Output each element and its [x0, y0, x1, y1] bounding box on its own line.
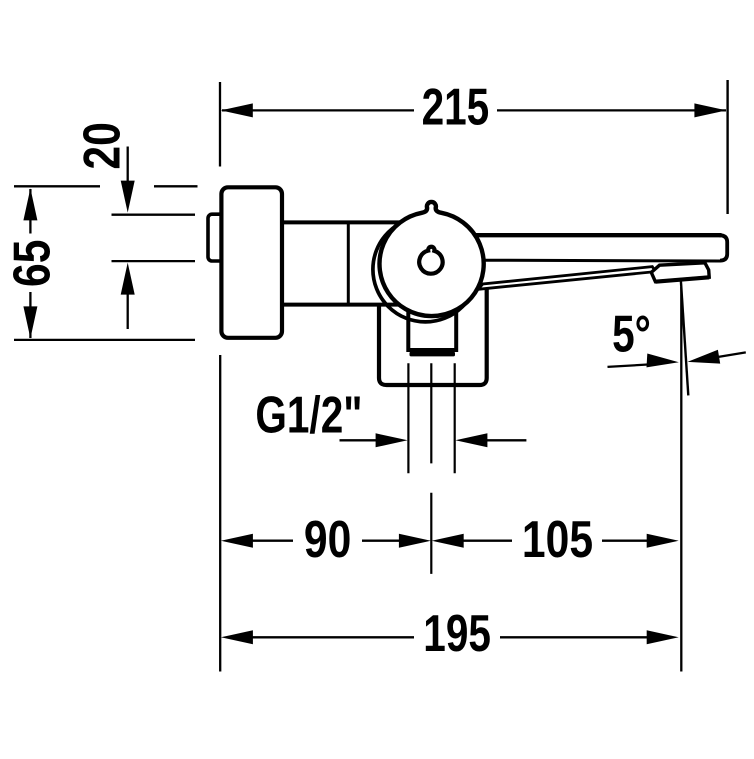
- wall flange: [221, 187, 282, 337]
- outlet aerator bar: [410, 352, 456, 357]
- handle cap circle with knob: [380, 202, 484, 316]
- flange bottom extension line: [14, 339, 195, 341]
- water stream line (5 deg): [681, 281, 688, 395]
- dim 20 up arrow: [127, 292, 129, 329]
- dim 215 extension line right: [726, 80, 728, 214]
- dim 195: [221, 630, 253, 644]
- spout: [470, 235, 727, 261]
- G1/2 extension line left: [407, 363, 409, 473]
- valve body: [281, 222, 400, 304]
- body seam: [347, 222, 350, 304]
- right extension line (105/195): [680, 287, 682, 672]
- svg-text:105: 105: [522, 511, 593, 569]
- dim 215 line: [222, 109, 414, 111]
- dim 105: [432, 534, 464, 548]
- svg-text:G1/2": G1/2": [255, 386, 362, 444]
- G1/2 extension line right: [454, 363, 456, 473]
- left extension line (90/195): [219, 355, 221, 672]
- dim 90: [221, 534, 253, 548]
- supply protrusion: [208, 214, 224, 261]
- svg-text:20: 20: [73, 122, 131, 169]
- protrusion bottom extension line: [112, 260, 196, 262]
- center line: [430, 363, 432, 463]
- dim 20 down arrow: [127, 147, 129, 185]
- outlet block: [408, 300, 456, 350]
- inner handle circle with notch: [419, 247, 442, 274]
- svg-text:65: 65: [3, 240, 61, 287]
- dim 215 extension line left: [219, 82, 221, 167]
- svg-text:90: 90: [304, 511, 351, 569]
- protrusion top extension line: [112, 214, 196, 216]
- escutcheon rim arc: [373, 217, 478, 322]
- lever handle: [478, 267, 656, 290]
- svg-text:195: 195: [423, 604, 491, 662]
- flange top extension line: [14, 185, 100, 187]
- spout aerator housing: [651, 263, 709, 282]
- svg-text:215: 215: [422, 78, 490, 136]
- mounting plate: [379, 290, 487, 386]
- dim 5 deg arrows: [608, 364, 651, 367]
- dim G1/2 arrows: [340, 439, 378, 441]
- svg-text:5°: 5°: [612, 305, 651, 363]
- dim 65 line: [29, 189, 31, 234]
